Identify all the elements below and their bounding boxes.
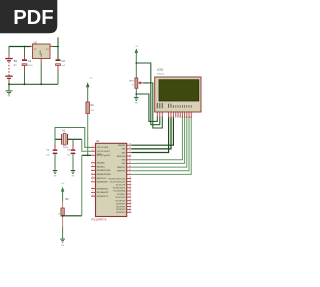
svg-text:RC5/SDO: RC5/SDO [117,194,126,196]
svg-text:22p: 22p [67,155,71,157]
crystal X1 [62,130,69,149]
svg-text:10k: 10k [91,110,95,112]
regulator U2 7805 [30,41,53,62]
svg-text:33: 33 [129,143,131,145]
ground (battery) [6,84,13,96]
svg-text:RA1/AN1: RA1/AN1 [97,165,105,168]
svg-text:10: 10 [92,194,94,196]
LCD pin numbers [157,117,192,119]
svg-text:RB0/INT: RB0/INT [118,145,126,147]
svg-text:RC4/SDI/SDA: RC4/SDI/SDA [114,190,127,193]
svg-text:25: 25 [129,192,131,194]
svg-text:RA5/AN4/SS: RA5/AN4/SS [97,181,109,184]
svg-text:OSC2/CLKOUT: OSC2/CLKOUT [97,151,111,153]
svg-text:X1: X1 [62,130,66,133]
svg-text:R2: R2 [66,198,70,201]
capacitor C2 [56,59,66,84]
svg-text:RC7/RX/DT: RC7/RX/DT [115,201,126,203]
svg-text:RC1/T1OSI/CCP2: RC1/T1OSI/CCP2 [110,181,125,183]
svg-text:RA0/AN0: RA0/AN0 [97,162,105,165]
svg-text:21: 21 [129,205,131,207]
svg-text:8: 8 [177,117,178,119]
svg-text:9V: 9V [14,65,17,67]
svg-text:14: 14 [190,117,192,119]
svg-text:RC2/CCP1: RC2/CCP1 [116,185,125,187]
svg-text:RC0/T1OSO/T1CKI: RC0/T1OSO/T1CKI [109,178,126,180]
wire MCLR [82,154,91,156]
svg-text:RB3/PGM: RB3/PGM [117,156,126,158]
svg-text:PDF: PDF [13,7,53,29]
svg-text:7: 7 [92,180,93,182]
svg-text:15: 15 [129,173,131,175]
junction dots [8,46,137,217]
svg-text:RD1/PSP1: RD1/PSP1 [116,206,125,208]
svg-text:RC3/SCK/SCL: RC3/SCK/SCL [113,188,125,190]
ground (reset) [60,227,65,246]
svg-text:34: 34 [129,147,131,149]
svg-text:VO: VO [46,49,49,51]
svg-text:22p: 22p [46,155,50,157]
svg-text:RE2/AN7/CS: RE2/AN7/CS [97,195,109,198]
svg-text:B1: B1 [14,59,18,63]
power +5V (reset branch) [61,183,65,201]
svg-text:C2: C2 [62,59,66,63]
svg-text:5: 5 [170,117,171,119]
svg-text:RV1: RV1 [130,80,135,82]
LCD pin stubs [157,112,191,117]
U1 right pin stubs and labels [109,143,131,214]
LCD LCD1 LM016L [155,69,201,112]
svg-text:RB1: RB1 [122,149,126,151]
svg-text:RA4/T0CKI: RA4/T0CKI [97,177,107,180]
svg-text:22: 22 [129,208,131,210]
ground (C3) [53,170,58,176]
wire U2 GND [40,61,42,84]
wire OSC1 loop [55,128,91,148]
svg-text:24: 24 [129,189,131,191]
svg-text:RB7/PGD: RB7/PGD [117,171,126,173]
wire RW to RB1 [131,117,171,149]
svg-text:5: 5 [92,172,93,174]
svg-text:LM016L: LM016L [157,73,166,75]
svg-text:38: 38 [129,162,131,164]
capacitor C1 [22,47,34,85]
svg-text:3: 3 [162,117,163,119]
svg-text:4: 4 [168,117,169,119]
svg-text:C4: C4 [67,150,71,152]
svg-text:20: 20 [129,202,131,204]
power +5V (LCD supply) [135,46,139,78]
svg-text:1: 1 [92,154,93,156]
svg-text:1: 1 [30,45,31,47]
svg-text:RB4: RB4 [122,160,126,162]
svg-text:RA3/AN3/VREF+: RA3/AN3/VREF+ [97,173,112,176]
svg-text:1uF: 1uF [62,65,66,67]
svg-text:C1: C1 [28,59,32,63]
svg-text:6: 6 [173,117,174,119]
ground (C4) [71,170,76,176]
svg-text:OSC1/CLKIN: OSC1/CLKIN [97,147,109,149]
LCD pin name smudges [157,103,192,108]
svg-text:U1: U1 [96,139,100,143]
U1 left pin stubs and labels [91,146,112,198]
svg-text:RB2: RB2 [122,152,126,154]
wire OSC2 [82,139,91,151]
svg-text:+5V: +5V [61,183,65,185]
PDF badge [0,0,57,33]
svg-text:3: 3 [51,45,52,47]
wire crystal net A [55,138,82,140]
svg-text:1k: 1k [132,84,134,86]
svg-text:RD3/PSP3: RD3/PSP3 [116,212,125,214]
svg-text:6: 6 [92,176,93,178]
resistor R1 [86,102,95,114]
svg-text:9: 9 [92,191,93,193]
battery BT1 [5,46,17,84]
wire D7 to RC0 [131,117,191,175]
wire D3 to RB4 [131,117,182,160]
svg-text:36: 36 [129,154,131,156]
svg-text:RD2/PSP2: RD2/PSP2 [116,209,125,211]
wire U2 output node [53,37,58,59]
svg-text:23: 23 [129,186,131,188]
svg-text:PIC16F877A: PIC16F877A [92,217,107,221]
wire VEE wiper [143,83,162,128]
svg-text:+5V: +5V [89,78,93,80]
wire R1 to MCLR node [87,114,89,156]
svg-text:2: 2 [159,117,160,119]
svg-text:27: 27 [129,211,131,213]
svg-text:16: 16 [129,177,131,179]
ground (RV1) [134,97,139,103]
svg-text:14: 14 [92,149,94,151]
wire D4 to RB5 [131,117,184,164]
svg-text:LCD1: LCD1 [157,69,164,72]
svg-text:1: 1 [157,117,158,119]
svg-text:+5V: +5V [135,46,139,48]
svg-text:8: 8 [92,187,93,189]
svg-text:40: 40 [129,169,131,171]
wire RV1 bottom to ground [135,88,137,97]
svg-text:R1: R1 [91,104,95,107]
svg-text:26: 26 [129,195,131,197]
svg-text:39: 39 [129,165,131,167]
svg-text:RE0/AN5/RD: RE0/AN5/RD [97,187,109,190]
svg-text:18: 18 [129,183,131,185]
wire RS to RB2 [131,117,168,153]
svg-text:4: 4 [92,169,93,171]
svg-text:RB5: RB5 [122,163,126,165]
potentiometer RV1 [130,78,144,88]
svg-text:470u: 470u [28,65,34,67]
svg-text:MCLR/Vpp/THV: MCLR/Vpp/THV [97,155,111,157]
svg-text:17: 17 [129,180,131,182]
wire VIN top rail [9,46,30,48]
svg-text:RA2/AN2/VREF-: RA2/AN2/VREF- [97,169,111,172]
svg-text:1k: 1k [58,214,60,216]
wire D5 to RB6 [131,117,187,168]
svg-text:37: 37 [129,158,131,160]
resistor R2 [58,198,69,227]
power +5V (R1 pull-up) [86,78,93,102]
svg-text:2: 2 [92,161,93,163]
wire VDD tap [136,63,160,125]
wire D6 to RB7 [131,117,189,171]
svg-text:19: 19 [129,199,131,201]
svg-text:RC6/TX/CK: RC6/TX/CK [116,197,127,199]
svg-text:RD0/PSP0: RD0/PSP0 [116,203,125,205]
svg-text:RB6/PGC: RB6/PGC [117,167,126,169]
wire reset node to MCLR [63,155,82,216]
wire bottom rail [9,83,58,85]
capacitor C4 [67,139,75,170]
svg-text:35: 35 [129,151,131,153]
svg-text:RE1/AN6/WR: RE1/AN6/WR [97,191,109,194]
capacitor C3 [46,139,57,170]
svg-text:C3: C3 [46,150,50,152]
microcontroller U1 PIC16F877A [92,139,127,222]
svg-text:3: 3 [92,165,93,167]
wire VSS tap to ground net [136,94,157,121]
svg-text:13: 13 [92,146,94,148]
svg-text:7: 7 [175,117,176,119]
svg-text:8MHz: 8MHz [63,147,68,149]
wire E to RB0 [131,117,173,146]
